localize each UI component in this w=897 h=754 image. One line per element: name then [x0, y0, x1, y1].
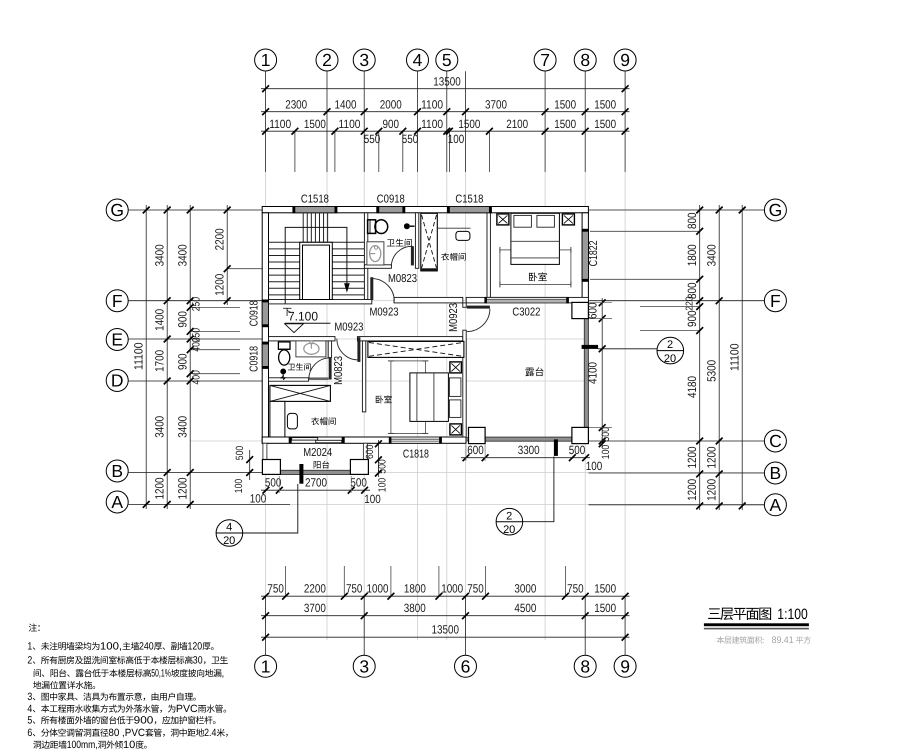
sliding door M2024 jambs — [289, 437, 292, 443]
svg-text:1: 1 — [27, 640, 32, 652]
balcony side wall right — [363, 443, 367, 461]
cloakroom stool — [287, 413, 297, 429]
svg-text:8: 8 — [580, 50, 590, 70]
right dimension lines — [589, 205, 765, 510]
svg-text:1200: 1200 — [685, 479, 699, 501]
staircase treads upper flight — [269, 213, 365, 295]
svg-text:900: 900 — [685, 310, 699, 327]
svg-text:2: 2 — [667, 339, 673, 351]
grid bubbles top — [255, 49, 277, 71]
svg-text:100: 100 — [376, 478, 388, 493]
svg-text:1700: 1700 — [152, 350, 166, 372]
svg-text:C1518: C1518 — [301, 193, 329, 205]
svg-text:1500: 1500 — [554, 117, 576, 131]
window C3022 — [487, 297, 567, 303]
terrace right vertical dim — [601, 298, 603, 448]
svg-text:4100: 4100 — [585, 362, 599, 384]
svg-text:C0918: C0918 — [248, 346, 260, 372]
svg-text:2: 2 — [27, 654, 32, 666]
closet1 wardrobe (dashed X) — [421, 213, 438, 271]
svg-text:M0923: M0923 — [448, 303, 460, 332]
notes — [29, 623, 37, 631]
construction grid lines — [130, 172, 786, 640]
window C0918 left upper — [262, 302, 268, 325]
window C0918 left lower — [262, 344, 268, 366]
section tick balcony — [299, 464, 303, 484]
svg-text:M0923: M0923 — [370, 306, 399, 318]
svg-text:1500: 1500 — [458, 117, 480, 131]
svg-text:100mm,: 100mm, — [67, 739, 98, 751]
svg-text:D: D — [111, 371, 124, 391]
terrace parapet right — [584, 319, 588, 441]
svg-text:100: 100 — [448, 132, 465, 146]
balcony right vertical dim — [377, 440, 379, 477]
svg-text:100: 100 — [586, 459, 603, 473]
door M0823 bath2 — [329, 358, 332, 380]
svg-text:750: 750 — [467, 582, 484, 596]
bedroom1 nightstand left — [497, 214, 509, 225]
label bedroom1 — [529, 272, 537, 281]
window C1818 — [391, 437, 440, 443]
svg-text:3400: 3400 — [175, 416, 189, 438]
bath1 floor drain — [404, 223, 410, 229]
stair well — [300, 242, 333, 299]
svg-text:5: 5 — [442, 50, 452, 70]
svg-text:2100: 2100 — [506, 117, 528, 131]
svg-text:4: 4 — [27, 703, 32, 715]
bedroom1 bottom wall west part — [466, 297, 486, 303]
svg-text:120: 120 — [188, 640, 203, 652]
bath2 toilet — [278, 342, 290, 365]
section callout 4/20 balcony — [243, 484, 298, 533]
window C1822 right — [582, 231, 588, 279]
svg-text:3: 3 — [359, 657, 369, 677]
grid bubbles right — [764, 199, 786, 221]
svg-text:3400: 3400 — [152, 244, 166, 266]
svg-text:2700: 2700 — [305, 476, 327, 490]
svg-text:3400: 3400 — [704, 244, 718, 266]
svg-text:1500: 1500 — [594, 582, 616, 596]
bedroom1 nightstand right — [562, 214, 574, 225]
svg-text:1500: 1500 — [554, 98, 576, 112]
top window extension lines — [295, 131, 490, 172]
stair down label — [283, 308, 291, 316]
bath1 toilet — [368, 220, 388, 234]
window C1518 b — [449, 207, 489, 213]
svg-text:A: A — [111, 492, 123, 512]
svg-text:2000: 2000 — [380, 98, 402, 112]
window jamb blocks — [292, 206, 295, 213]
svg-text:50,1%: 50,1% — [151, 667, 171, 679]
svg-text:3300: 3300 — [518, 443, 540, 457]
section callout 2/20 right — [598, 348, 657, 350]
section callout 2/20 bottom — [523, 457, 554, 522]
balcony column right — [350, 460, 368, 475]
svg-text:20: 20 — [503, 524, 515, 536]
svg-text:600: 600 — [467, 443, 484, 457]
svg-text:C0918: C0918 — [377, 193, 405, 205]
door M0923 terrace — [467, 306, 490, 309]
subtitle area — [717, 636, 724, 643]
svg-text:2200: 2200 — [304, 582, 326, 596]
bedroom2 bed — [410, 373, 449, 422]
svg-text:B: B — [770, 463, 782, 483]
svg-text:3700: 3700 — [304, 601, 326, 615]
svg-text:M0823: M0823 — [388, 273, 417, 285]
terrace column SW — [469, 427, 486, 443]
window C0918 top — [379, 207, 403, 213]
svg-text:750: 750 — [567, 582, 584, 596]
svg-text:1500: 1500 — [304, 117, 326, 131]
bedroom2 north wall — [357, 337, 462, 341]
svg-text:1200: 1200 — [704, 446, 718, 468]
bottom extension stubs — [286, 566, 566, 596]
left dim ticks — [143, 207, 150, 214]
svg-text:M0823: M0823 — [333, 356, 345, 385]
label bathroom2 — [288, 364, 295, 370]
svg-text:3000: 3000 — [514, 582, 536, 596]
svg-text:4500: 4500 — [514, 601, 536, 615]
svg-text:600: 600 — [364, 444, 376, 459]
svg-text:5300: 5300 — [704, 360, 718, 382]
svg-text:B: B — [111, 461, 123, 481]
terrace column SE — [572, 427, 589, 443]
svg-text:400: 400 — [191, 337, 203, 352]
right dim ticks — [696, 207, 703, 214]
title — [708, 608, 720, 619]
label bathroom1 — [387, 239, 395, 246]
terrace column NE — [572, 302, 589, 318]
bedroom1 bed — [511, 213, 560, 264]
svg-text:11100: 11100 — [132, 342, 146, 370]
svg-text:1000: 1000 — [441, 582, 463, 596]
svg-text:500: 500 — [376, 459, 388, 474]
svg-text:4: 4 — [413, 50, 423, 70]
right extension lines — [590, 231, 700, 330]
top dimension lines — [261, 71, 630, 172]
bedroom2 east wall — [463, 330, 466, 437]
bedroom2 wardrobe (dashed X) — [368, 341, 464, 357]
svg-text:900: 900 — [175, 353, 189, 370]
bedroom2 rug — [391, 361, 426, 434]
partition closet1/bedroom1 — [487, 213, 490, 298]
partition stair/bath1 — [364, 213, 367, 300]
svg-text:6: 6 — [27, 727, 32, 739]
svg-text:C: C — [769, 431, 782, 451]
svg-text:1: 1 — [261, 50, 271, 70]
svg-text:500: 500 — [569, 443, 586, 457]
svg-text:89.41: 89.41 — [772, 635, 794, 646]
grid bubbles left — [106, 199, 128, 221]
svg-text:3400: 3400 — [175, 244, 189, 266]
svg-text:1500: 1500 — [594, 98, 616, 112]
svg-text:3700: 3700 — [485, 98, 507, 112]
bath2 south wall — [269, 378, 309, 381]
svg-text:E: E — [111, 330, 123, 350]
svg-text:1500: 1500 — [594, 601, 616, 615]
svg-text:2200: 2200 — [212, 228, 226, 250]
bedroom2 nightstand lower — [450, 424, 462, 435]
section tick right parapet — [582, 345, 599, 349]
svg-text:750: 750 — [346, 582, 363, 596]
svg-text:8: 8 — [580, 657, 590, 677]
svg-text:100: 100 — [600, 445, 612, 460]
cloakroom side wardrobe — [270, 401, 285, 437]
svg-text:1200: 1200 — [152, 477, 166, 499]
svg-text:500: 500 — [234, 446, 246, 461]
svg-text:9: 9 — [620, 50, 630, 70]
partition bath1/closet1 — [415, 213, 418, 268]
svg-text:1400: 1400 — [152, 309, 166, 331]
svg-text:4: 4 — [226, 522, 232, 534]
svg-text:400: 400 — [191, 370, 203, 385]
svg-text:100,: 100, — [100, 640, 122, 652]
svg-text:750: 750 — [267, 582, 284, 596]
svg-text:1400: 1400 — [335, 98, 357, 112]
svg-text:1800: 1800 — [685, 244, 699, 266]
bath1 south wall — [364, 265, 391, 269]
svg-text:1100: 1100 — [269, 117, 291, 131]
svg-text:900: 900 — [175, 311, 189, 328]
svg-text:C1818: C1818 — [403, 448, 429, 460]
balcony bottom dim — [261, 489, 370, 491]
exterior wall top — [262, 207, 588, 213]
door M0923 stair hall — [370, 277, 373, 300]
svg-text:1800: 1800 — [404, 582, 426, 596]
section tick bottom parapet — [554, 439, 558, 456]
stair walk line with down arrow — [285, 227, 347, 303]
svg-text:5: 5 — [27, 714, 32, 726]
balcony side wall left — [263, 443, 267, 461]
svg-text:1100: 1100 — [421, 98, 443, 112]
svg-text:1500: 1500 — [594, 117, 616, 131]
svg-text:10: 10 — [123, 739, 135, 751]
svg-text:900: 900 — [134, 714, 154, 726]
svg-text:2.4: 2.4 — [204, 727, 216, 739]
label terrace — [525, 368, 534, 377]
label bedroom2 — [376, 395, 383, 403]
svg-text:600: 600 — [585, 302, 599, 319]
svg-text:550: 550 — [364, 132, 381, 146]
svg-text:250: 250 — [191, 297, 203, 312]
svg-text:6: 6 — [461, 657, 471, 677]
svg-text:1100: 1100 — [421, 117, 443, 131]
svg-text:G: G — [110, 200, 124, 220]
svg-text:M2024: M2024 — [303, 447, 332, 459]
svg-text:9: 9 — [620, 657, 630, 677]
cloakroom wardrobe X — [270, 385, 331, 401]
balcony left vertical dim — [249, 450, 251, 480]
sliding door M2024 balcony — [292, 438, 318, 441]
svg-text:4180: 4180 — [685, 376, 699, 398]
svg-text:20: 20 — [223, 535, 235, 547]
bottom dimension lines — [261, 596, 630, 655]
svg-text:PVC: PVC — [176, 703, 198, 715]
bath1 washbasin — [367, 242, 384, 265]
svg-text:2300: 2300 — [285, 98, 307, 112]
door M0823 cloakroom — [357, 337, 360, 362]
terrace bottom dim — [461, 457, 590, 459]
label balcony — [314, 461, 321, 468]
svg-text:3400: 3400 — [152, 416, 166, 438]
stair south wall — [269, 300, 372, 304]
left dimension lines — [128, 205, 290, 509]
svg-text:C1822: C1822 — [588, 240, 600, 266]
svg-text:2: 2 — [506, 510, 512, 522]
balcony column left — [262, 460, 280, 475]
svg-text:F: F — [112, 291, 123, 311]
svg-text:1000: 1000 — [367, 582, 389, 596]
svg-text:500: 500 — [600, 427, 612, 442]
svg-text:13500: 13500 — [432, 623, 460, 637]
svg-text:7.100: 7.100 — [288, 310, 318, 324]
left extension lines — [190, 269, 262, 374]
svg-text:1200: 1200 — [685, 446, 699, 468]
corridor south wall — [394, 297, 463, 303]
svg-text:1200: 1200 — [212, 273, 226, 295]
svg-text:3: 3 — [359, 50, 369, 70]
bath2 floor drain — [280, 369, 286, 375]
label closet1 — [441, 253, 449, 261]
terrace door jamb wall stub — [463, 303, 466, 307]
svg-text:550: 550 — [402, 132, 419, 146]
svg-text:1: 1 — [261, 657, 271, 677]
svg-text:C1518: C1518 — [455, 193, 483, 205]
svg-text:,: , — [222, 667, 225, 679]
svg-text:13500: 13500 — [433, 75, 461, 89]
svg-text:1:100: 1:100 — [777, 606, 808, 623]
svg-text:240: 240 — [139, 640, 154, 652]
svg-text:20: 20 — [664, 353, 676, 365]
svg-text:800: 800 — [685, 212, 699, 229]
bath2 east wall — [328, 341, 331, 358]
svg-text:C0918: C0918 — [248, 300, 260, 326]
svg-text:2: 2 — [322, 50, 332, 70]
svg-text:3: 3 — [27, 691, 32, 703]
svg-text:1200: 1200 — [704, 479, 718, 501]
svg-text:500: 500 — [350, 476, 367, 490]
closet1 stool — [456, 231, 470, 240]
exterior wall right bedroom1 — [582, 213, 588, 303]
top dim ticks — [262, 85, 269, 92]
svg-text:F: F — [770, 291, 781, 311]
svg-text:M0923: M0923 — [334, 321, 363, 333]
svg-text:100: 100 — [233, 479, 245, 494]
window C1518 a — [295, 207, 335, 213]
svg-text:900: 900 — [383, 117, 400, 131]
door M0823 bath1 — [411, 246, 414, 265]
svg-text:A: A — [770, 495, 782, 515]
svg-text:7: 7 — [540, 50, 550, 70]
svg-text:1100: 1100 — [339, 117, 361, 131]
bedroom1 bottom wall east part — [567, 297, 589, 303]
svg-text:100: 100 — [250, 492, 267, 506]
closet1 shelf line — [437, 227, 470, 229]
svg-text:30: 30 — [193, 654, 203, 666]
bedroom1 rug — [500, 250, 571, 285]
svg-text:220: 220 — [685, 296, 696, 311]
svg-text:C3022: C3022 — [512, 306, 540, 318]
terrace parapet bottom — [485, 437, 572, 441]
balcony parapet — [263, 470, 368, 474]
exterior wall bottom — [262, 437, 466, 443]
exterior wall left — [262, 213, 268, 443]
svg-text:100: 100 — [364, 492, 381, 506]
svg-text:1200: 1200 — [175, 477, 189, 499]
svg-text:11100: 11100 — [727, 343, 741, 371]
svg-text:G: G — [769, 200, 783, 220]
bedroom2 nightstand upper — [450, 362, 462, 373]
grid bubbles bottom — [255, 655, 277, 677]
svg-text:3800: 3800 — [404, 601, 426, 615]
bottom dim ticks — [262, 593, 269, 600]
bath2 washbasin — [296, 341, 326, 357]
bedroom2 west wall — [362, 341, 365, 412]
bath2 north wall — [269, 337, 336, 341]
svg-text:80 ,PVC: 80 ,PVC — [108, 727, 145, 739]
label cloakroom — [311, 417, 319, 425]
